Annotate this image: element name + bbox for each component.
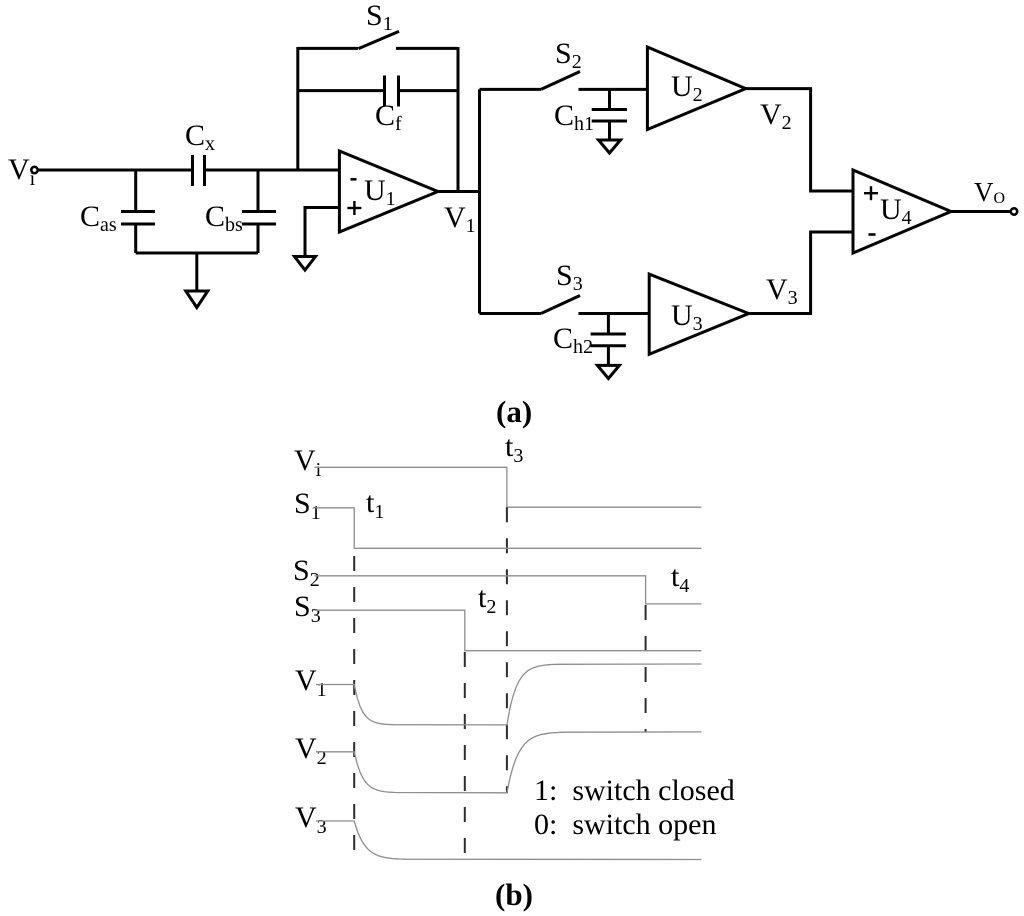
amplifier U3 bbox=[649, 274, 749, 354]
wire Ch1 bottom bbox=[608, 121, 611, 140]
trace S3 bbox=[315, 610, 702, 651]
ground (input network) bbox=[186, 291, 208, 308]
op-amp U1 bbox=[339, 151, 438, 232]
wire Ch2 top bbox=[607, 314, 610, 335]
wire Cbs to ground rail bbox=[257, 224, 260, 253]
ground (U1 noninverting) bbox=[295, 257, 316, 271]
trace V1 bbox=[316, 664, 701, 725]
wire Cf left bbox=[298, 89, 385, 92]
wire Cx to U1 inverting input bbox=[205, 169, 340, 172]
dashed marker t4 bbox=[645, 605, 647, 732]
trace Vi bbox=[315, 467, 702, 507]
capacitor Cas bbox=[121, 212, 155, 225]
trace V3 bbox=[316, 821, 701, 860]
trace S1 bbox=[315, 508, 702, 549]
trace S2 bbox=[315, 576, 702, 604]
dashed marker t3 bbox=[506, 507, 508, 793]
wire Vi to Cx bbox=[38, 169, 192, 172]
op-amp U4 minus mark bbox=[869, 233, 876, 236]
wire ground rail bbox=[136, 252, 258, 255]
op-amp U4 plus mark bbox=[864, 186, 878, 200]
switch S3 bbox=[541, 296, 580, 314]
wire U1 output bbox=[438, 190, 480, 193]
wire U4 output bbox=[951, 210, 1011, 213]
switch S1 bbox=[358, 31, 399, 48]
wire S3 right bbox=[579, 312, 650, 315]
switch S2 bbox=[541, 72, 580, 90]
wire S1 left bbox=[298, 47, 358, 50]
wire rail to ground symbol bbox=[195, 253, 198, 291]
terminal Vo bbox=[1011, 208, 1017, 214]
op-amp U1 minus mark bbox=[351, 178, 357, 181]
wire branch to Cbs bbox=[257, 170, 260, 212]
dashed marker t2 bbox=[464, 652, 466, 860]
trace V2 bbox=[316, 732, 701, 793]
svg-text:(b): (b) bbox=[495, 877, 533, 912]
wire Ch2 bottom bbox=[607, 346, 610, 366]
wire S2 left bbox=[480, 88, 542, 91]
ground (Ch1) bbox=[599, 140, 621, 153]
amplifier U2 bbox=[647, 47, 745, 130]
ground (Ch2) bbox=[597, 365, 619, 378]
terminal Vi bbox=[31, 167, 37, 173]
wire S2 right bbox=[579, 88, 648, 91]
svg-text:1: switch closed: 1: switch closed bbox=[534, 774, 735, 807]
capacitor Cf bbox=[385, 76, 399, 107]
wire Ch1 top bbox=[608, 89, 611, 109]
wire U1 noninverting to ground bbox=[305, 208, 339, 257]
wire feedback right vertical bbox=[457, 47, 460, 192]
svg-text:0: switch open: 0: switch open bbox=[534, 808, 716, 841]
wire S1 right bbox=[396, 47, 458, 50]
wire V3 to U4 inverting input bbox=[749, 232, 853, 314]
wire S3 left bbox=[480, 312, 542, 315]
op-amp U4 bbox=[853, 170, 951, 253]
wire branch to Cas bbox=[134, 170, 137, 212]
op-amp U1 plus mark bbox=[347, 201, 361, 215]
dashed marker t1 bbox=[353, 556, 355, 860]
svg-text:(a): (a) bbox=[496, 394, 532, 429]
wire U2 output to U4 plus input bbox=[746, 89, 853, 191]
capacitor Cx bbox=[193, 155, 205, 186]
capacitor Ch2 bbox=[591, 334, 626, 346]
capacitor Ch1 bbox=[592, 110, 627, 122]
wire feedback left vertical bbox=[296, 47, 299, 170]
wire Cf right bbox=[399, 89, 459, 92]
wire Cas to ground rail bbox=[134, 224, 137, 253]
capacitor Cbs bbox=[242, 212, 276, 225]
wire bus vertical V1 bbox=[478, 89, 481, 313]
